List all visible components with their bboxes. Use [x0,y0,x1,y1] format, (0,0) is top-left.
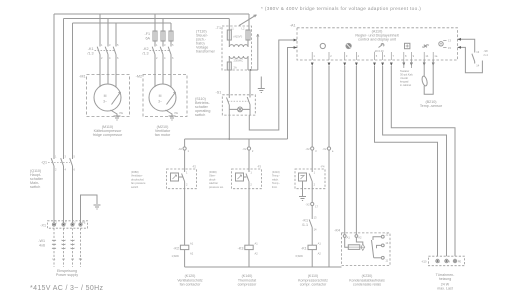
svg-text:M: M [104,94,107,98]
terminal X2:3 [306,147,318,153]
wire L1 feeder left [53,14,55,159]
label F090 pressure switch [209,170,224,189]
svg-text:2: 2 [250,183,252,187]
svg-text:1: 1 [250,171,252,175]
motor M2 enclosure box [143,75,187,117]
svg-text:30-pol.Kab.: 30-pol.Kab. [400,73,414,77]
svg-text:1: 1 [314,171,316,175]
wire motor1 tap L3 [115,23,117,47]
svg-text:M: M [159,94,162,98]
svg-text:PE: PE [120,111,124,115]
terminal strip X1 [40,221,87,229]
heater terminal box X10 [421,256,464,266]
pressure switch F090 box [232,165,262,189]
svg-text:compressor: compressor [238,283,258,287]
label F210 temp limiter [272,170,280,189]
svg-text:-F2: -F2 [192,165,196,169]
svg-text:9: 9 [413,54,415,58]
wire L1 to X1 [53,166,55,223]
wire coil K3 to bus [248,250,250,267]
svg-text:A2: A2 [190,252,194,256]
wire L3 to X1 [72,166,74,223]
wire motor1 leads [99,55,101,88]
wire relay feed pin 4 [355,66,357,234]
svg-text:/1.4: /1.4 [484,53,489,57]
svg-text:1: 1 [186,171,188,175]
svg-text:switch: switch [30,185,40,189]
svg-text:3: 3 [346,54,348,58]
label keypad note [400,69,414,87]
svg-text:PE: PE [82,221,86,225]
svg-text:A1: A1 [318,242,322,246]
svg-text:PE: PE [79,257,83,261]
svg-text:-X2: -X2 [178,147,183,151]
wire branch A to coil [184,189,186,246]
relay K4 box [342,233,391,266]
svg-text:L1: L1 [53,257,56,261]
mid distribution bus [185,138,288,140]
ground (motor M1) [114,116,121,120]
wire fuse to K2 [155,41,171,47]
svg-text:-X2: -X2 [306,147,311,151]
temp sensor B210 [421,60,433,94]
wire L3 feeder left [72,23,74,159]
svg-text:2: 2 [55,168,57,172]
relay changeover contact [372,233,389,263]
svg-text:3: 3 [74,221,76,225]
wire L2 to X1 [63,166,65,223]
wire heater PE pin 7 [391,66,455,256]
terminal X2:2 [242,139,254,153]
svg-text:13: 13 [314,216,317,220]
mechanical link [228,100,249,102]
arrow to note [239,15,257,26]
pressure switch F080 box [167,165,197,189]
svg-text:3~: 3~ [158,100,162,104]
terminal X2:17 [306,189,319,209]
svg-text:1: 1 [188,149,190,153]
lamp in S1 [229,107,250,112]
valve icon [422,45,429,48]
svg-text:230VAC: 230VAC [234,59,244,63]
svg-text:1: 1 [156,43,158,47]
indicator icon filled [346,43,351,48]
wire secondary N to S1 [249,70,251,95]
label M210 fan motor [155,125,171,137]
svg-text:a: a [332,150,334,153]
wire branch B to coil [248,189,250,246]
ground (temp limiter) [299,192,306,201]
switch S1 contact b [247,95,250,115]
coil K3 thermostat [238,242,259,256]
svg-text:/1.3: /1.3 [142,52,148,56]
wire secondary L to S1 [228,70,230,95]
svg-text:1: 1 [101,43,103,47]
svg-text:14: 14 [385,241,388,245]
svg-text:PE: PE [175,111,179,115]
svg-text:-S1: -S1 [216,91,222,95]
wire transformer tap L1 [248,14,250,30]
svg-text:Power supply: Power supply [56,273,78,277]
svg-text:2: 2 [156,56,158,60]
label A110 control and display unit [355,29,398,41]
switch S1 contact a [227,95,230,115]
pin stubs inside box [312,52,433,60]
cable W1 supply cores [54,228,81,267]
fuse transformer primary L2 [242,27,251,40]
svg-text:A2: A2 [358,236,362,240]
svg-text:L: L [439,259,441,263]
svg-text:-M1: -M1 [79,75,85,79]
svg-text:A2: A2 [318,252,322,256]
wire motor1 PE [111,110,118,116]
svg-text:druckschal.: druckschal. [131,177,144,181]
svg-text:keypad: keypad [400,80,409,84]
wire branch C to box [311,150,313,169]
wire L2 feeder left [63,19,65,160]
fuse transformer primary L1 [227,27,234,40]
svg-text:(415V*): (415V*) [234,35,243,39]
motor M2 fan motor [149,84,176,111]
wire coil K1 to bus [311,250,313,267]
svg-text:fridge compressor: fridge compressor [93,133,123,137]
wire motor2 tap L1 [154,14,156,31]
svg-text:-F1: -F1 [144,32,150,36]
svg-text:-X2: -X2 [306,202,311,206]
label M110 fridge compressor [93,125,123,137]
svg-text:-Q1: -Q1 [41,161,47,165]
svg-text:5: 5 [117,43,119,47]
wire bus to control box [288,48,291,140]
svg-text:-X2: -X2 [242,147,247,151]
wire branch B to box [248,150,250,169]
svg-text:2: 2 [252,149,254,153]
svg-text:max. Last: max. Last [437,287,453,291]
label F080 fan pressure switch [131,170,146,189]
display icon [405,43,410,48]
svg-text:(F080): (F080) [131,170,139,174]
wire relay feed pin 3 [344,66,346,234]
coil K1 compressor contactor [296,242,322,258]
wire branch D to bottom bus [328,150,330,267]
svg-text:-K1: -K1 [302,219,308,223]
wire transformer tap L2 [228,19,230,31]
svg-text:5: 5 [172,43,174,47]
wire motor1 tap L1 [99,14,101,47]
svg-text:2A: 2A [234,66,237,70]
svg-text:-T1: -T1 [215,26,221,30]
svg-text:-K3: -K3 [238,246,244,250]
transformer box T1 [222,26,252,70]
svg-text:1: 1 [313,54,315,58]
svg-text:Temp.-: Temp.- [272,181,280,185]
wire heater N pin 6 [383,66,447,256]
svg-text:in cabinet: in cabinet [400,83,411,87]
label Q110 main switch [30,169,44,189]
label S110 operating switch [195,97,211,117]
svg-text:15: 15 [448,46,451,50]
bottom neutral bus [185,266,342,268]
main switch Q1 [41,155,76,172]
svg-text:heizung: heizung [439,277,452,281]
wire motor2 tap L2 [162,19,164,32]
transformer windings [229,40,248,70]
svg-text:-X1: -X1 [40,224,46,228]
svg-text:-A1: -A1 [290,24,296,28]
wire branch C from pin 1 [311,66,313,147]
svg-text:switch: switch [195,113,205,117]
motor M1 fridge compressor [94,84,121,111]
svg-text:-F4: -F4 [321,165,325,169]
svg-text:L3: L3 [71,257,74,261]
svg-text:13: 13 [476,50,479,54]
svg-text:-W1: -W1 [38,239,45,243]
svg-text:pressure sw.: pressure sw. [209,185,224,189]
svg-text:condensate relais: condensate relais [353,283,381,287]
svg-text:1,5kW: 1,5kW [172,254,180,258]
label T110 transformer [196,30,216,54]
svg-text:4: 4 [65,168,67,172]
label K140 thermostat [238,274,258,287]
wire motor2 leads [154,55,156,88]
connector arrows below box [311,63,435,67]
svg-text:3: 3 [315,149,317,153]
relay output icon [439,39,452,50]
svg-text:PE: PE [458,259,462,263]
svg-text:14: 14 [476,64,479,68]
svg-text:-K4: -K4 [334,229,340,233]
svg-text:L2: L2 [62,257,65,261]
svg-text:control and display unit: control and display unit [358,37,396,41]
svg-text:Temp.-: Temp.- [272,174,280,178]
sensor key icon [374,44,384,53]
svg-text:druck-: druck- [209,177,216,181]
wire coil K2 to bus [184,250,186,267]
svg-text:-K1: -K1 [301,246,307,250]
svg-text:-K2: -K2 [143,47,149,51]
door contact S8 [472,49,488,68]
label B210 temp sensor [420,100,443,108]
svg-text:/1.1: /1.1 [302,223,308,227]
svg-text:4: 4 [109,56,111,60]
svg-text:2: 2 [101,56,103,60]
svg-text:wäch.: wäch. [272,177,279,181]
svg-text:L1: L1 [231,27,234,31]
svg-text:6A: 6A [145,37,150,41]
svg-text:N: N [448,259,450,263]
wire N stub with arrow [248,34,258,70]
svg-text:fan motor: fan motor [155,133,171,137]
svg-text:-S8: -S8 [484,49,489,53]
wire right exit 13 [458,39,475,52]
svg-text:wächter: wächter [209,181,218,185]
svg-text:Temp.-sensor: Temp.-sensor [420,104,443,108]
wire motor1 tap L2 [107,19,109,47]
svg-text:4: 4 [358,54,360,58]
contactor contacts K1 /1.3 [87,43,119,60]
svg-text:*415V AC / 3~ / 50Hz: *415V AC / 3~ / 50Hz [30,285,103,292]
svg-text:8: 8 [405,54,407,58]
junction S1 to bus [228,138,230,140]
svg-text:-F3: -F3 [257,165,261,169]
label K230 condensate relay [349,274,385,287]
svg-text:2: 2 [65,221,67,225]
wire motor2 tap L3 [170,23,172,31]
auxiliary contact K1 /1.1 [302,206,317,246]
svg-text:13: 13 [448,39,451,43]
svg-text:2: 2 [330,54,332,58]
wire L2 bus [64,18,230,20]
wire L1 bus [54,13,249,15]
svg-text:3: 3 [164,43,166,47]
terminal X2:1 [178,139,190,153]
svg-text:Tastatur: Tastatur [400,69,409,73]
fuses F1 6A [144,31,173,41]
switch S1 box [222,95,255,115]
wire PE to ground [81,195,98,223]
svg-text:17: 17 [315,204,318,208]
label heater socket [436,273,456,291]
svg-text:2: 2 [314,183,316,187]
svg-text:fan contactor: fan contactor [180,283,202,287]
svg-text:5: 5 [376,54,378,58]
relay coil K4 [345,237,365,250]
wire right exit 14 [458,47,483,72]
svg-text:A2: A2 [255,252,259,256]
svg-text:A1: A1 [255,242,259,246]
svg-text:11: 11 [385,259,388,263]
wire heater L pin 5 [375,66,438,256]
fuse transformer secondary 2A [227,62,237,70]
svg-text:-X2: -X2 [322,147,327,151]
coil K2 fan contactor [172,242,194,258]
svg-text:6: 6 [74,168,76,172]
svg-text:(F090): (F090) [209,170,217,174]
svg-text:6: 6 [172,56,174,60]
arrow input L at box left [290,39,297,41]
svg-text:-X10: -X10 [421,260,427,264]
ground (transformer shield) [258,77,265,93]
svg-text:fan pressure: fan pressure [131,181,146,185]
svg-text:14: 14 [314,228,317,232]
svg-text:i.Gerät: i.Gerät [400,76,408,80]
wire branch D from pin 2 [328,66,330,147]
svg-text:6: 6 [384,54,386,58]
svg-text:* (380V & 400V bridge termina: * (380V & 400V bridge terminals for volt… [261,6,421,11]
svg-text:1: 1 [55,155,57,159]
label K110 compressor contactor [298,274,328,287]
svg-text:6: 6 [117,56,119,60]
motor M1 enclosure box [87,75,130,117]
arrow input N at box left [290,47,297,49]
ground (motor M2) [169,116,176,120]
svg-text:3: 3 [109,43,111,47]
svg-text:4x6: 4x6 [39,244,45,248]
wire branch A to box [184,150,186,169]
svg-text:2: 2 [186,183,188,187]
svg-text:Ventilator-: Ventilator- [131,174,143,178]
control unit A1 box [297,28,458,60]
svg-text:-M2: -M2 [136,75,142,79]
svg-text:-K1: -K1 [88,47,94,51]
terminal X2:a [322,147,334,153]
wire L3 bus [73,22,172,24]
ground (supply PE) [94,205,101,209]
indicator lamp icon [320,43,325,48]
svg-text:A1: A1 [190,242,194,246]
svg-text:14: 14 [425,54,428,58]
svg-text:L2: L2 [242,27,245,31]
svg-text:transformer: transformer [196,50,216,54]
svg-text:1: 1 [56,221,58,225]
svg-text:A1: A1 [347,236,351,240]
svg-text:Über-: Über- [209,174,216,178]
svg-text:-K2: -K2 [173,246,179,250]
wire S1 N return to control box [249,40,290,130]
label K120 fan contactor [177,274,203,287]
svg-text:4: 4 [164,56,166,60]
svg-text:6,5kW: 6,5kW [296,254,304,258]
temp limiter F210 box [295,165,325,193]
wire motor2 PE [166,110,173,116]
svg-text:5: 5 [74,155,76,159]
svg-text:/1.3: /1.3 [87,52,93,56]
keypad pin stubs [404,60,412,68]
relay input terminals [343,235,362,240]
svg-text:3~: 3~ [103,100,107,104]
svg-text:3: 3 [65,155,67,159]
svg-text:compr. contactor: compr. contactor [300,283,327,287]
svg-text:1a: 1a [434,54,437,58]
svg-text:switch: switch [131,185,139,189]
svg-text:(F210): (F210) [272,170,280,174]
svg-text:limit.: limit. [272,185,278,189]
contactor contacts K2 /1.3 [142,43,174,60]
svg-text:7: 7 [393,54,395,58]
